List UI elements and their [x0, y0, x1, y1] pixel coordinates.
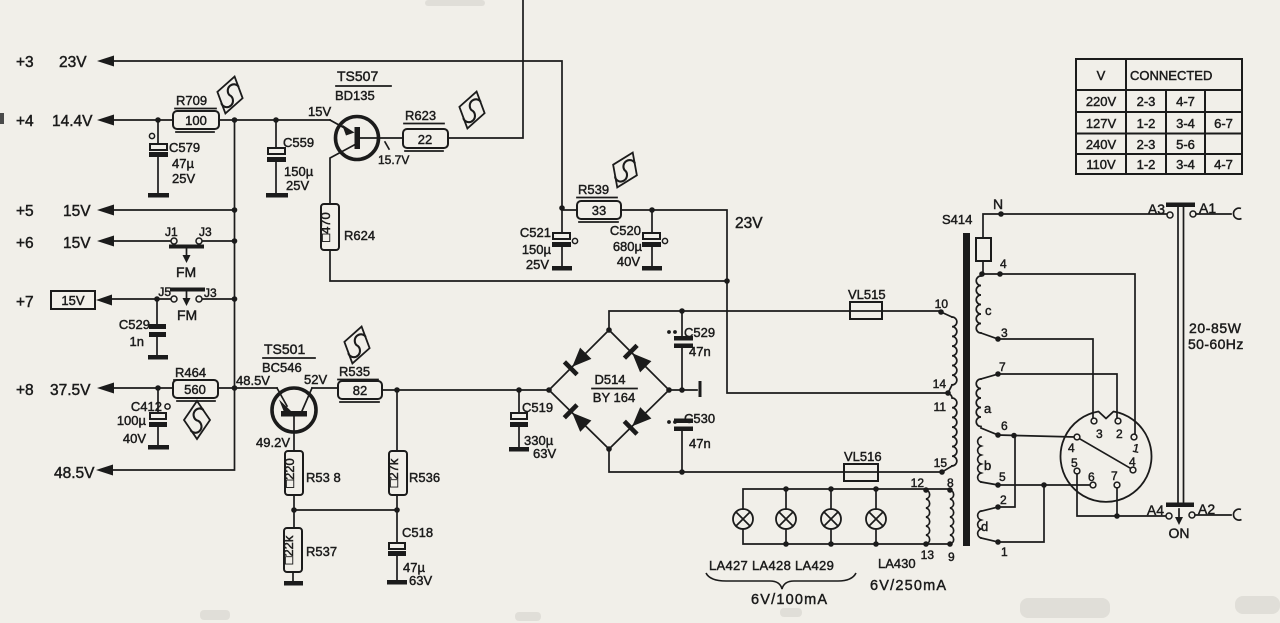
- node pin 15: [934, 456, 952, 475]
- resistor R537: [281, 528, 337, 586]
- svg-text:N: N: [993, 196, 1003, 212]
- transistor TS501 BC546: [236, 341, 327, 451]
- svg-text:40V: 40V: [617, 254, 640, 269]
- node junction C520: [649, 207, 655, 213]
- svg-text:6V/250mA: 6V/250mA: [870, 578, 947, 594]
- node pin 10: [935, 297, 952, 317]
- node junction C559: [273, 117, 279, 123]
- terminal A3/A1: [1148, 200, 1216, 218]
- svg-text:52V: 52V: [304, 372, 327, 387]
- svg-text:A3: A3: [1148, 201, 1165, 217]
- svg-text:7: 7: [999, 360, 1006, 374]
- svg-text:C520: C520: [610, 223, 641, 238]
- resistor R623: [403, 108, 448, 151]
- svg-text:b: b: [984, 458, 991, 473]
- svg-text:15: 15: [934, 456, 948, 470]
- node 48.5V rail: [54, 465, 113, 483]
- plug hook bottom: [1233, 509, 1241, 520]
- wire R538/R536 bottoms: [294, 495, 397, 543]
- svg-text:R53 8: R53 8: [306, 470, 341, 485]
- svg-text:3: 3: [1096, 427, 1103, 441]
- svg-text:TS507: TS507: [337, 68, 378, 84]
- svg-text:J1: J1: [165, 225, 178, 239]
- node +7 rail 15V boxed: [16, 291, 112, 311]
- safety diamond at R539: [605, 147, 644, 192]
- node pin 2: [995, 493, 1007, 510]
- wire lamp bottom rail: [743, 529, 950, 544]
- svg-text:25V: 25V: [526, 257, 549, 272]
- svg-text:63V: 63V: [409, 573, 432, 588]
- wire pin 2 up to pin 6 wire: [998, 436, 1015, 507]
- capacitor C529 47n: [667, 311, 715, 390]
- svg-text:47n: 47n: [689, 344, 711, 359]
- node pin 6: [981, 419, 1008, 438]
- svg-text:J3: J3: [204, 286, 217, 300]
- svg-text:□27k: □27k: [386, 458, 401, 487]
- lamp LA427: [733, 509, 753, 529]
- svg-text:680µ: 680µ: [613, 239, 643, 254]
- wire +4 rail: [112, 119, 330, 121]
- svg-text:240V: 240V: [1086, 137, 1117, 152]
- lamp LA429: [821, 486, 841, 547]
- node chassis tap bar: [699, 381, 702, 397]
- svg-text:+8: +8: [16, 382, 34, 399]
- svg-text:R623: R623: [405, 108, 436, 123]
- node +5 rail 15V: [16, 203, 114, 220]
- svg-text:150µ: 150µ: [522, 242, 552, 257]
- bridge rectifier D514 BY164: [546, 327, 672, 452]
- svg-text:ON: ON: [1169, 525, 1190, 541]
- capacitor C518: [387, 525, 433, 588]
- svg-text:1n: 1n: [130, 334, 144, 349]
- svg-text:C519: C519: [522, 400, 553, 415]
- svg-text:8: 8: [947, 476, 954, 490]
- svg-text:C579: C579: [169, 140, 200, 155]
- svg-text:5: 5: [1071, 456, 1078, 470]
- wire A1 to plug: [1196, 213, 1231, 215]
- diode D514 lower-left: [564, 405, 591, 432]
- node junction main vertical at +4: [232, 117, 238, 123]
- svg-text:3-4: 3-4: [1176, 116, 1195, 131]
- node junction C579: [155, 117, 161, 123]
- svg-text:c: c: [985, 303, 992, 318]
- svg-text:20-85W: 20-85W: [1189, 320, 1242, 336]
- svg-text:C412: C412: [131, 399, 162, 414]
- svg-text:15V: 15V: [308, 104, 331, 119]
- wire pin 1 up to pin 5 wire: [998, 485, 1044, 542]
- svg-text:+5: +5: [16, 203, 34, 220]
- transformer S414 core: [942, 212, 972, 546]
- svg-text:CONNECTED: CONNECTED: [1130, 68, 1212, 83]
- wire pin 6 to selector pin 4 left: [998, 435, 1074, 437]
- wire R623 to top feed: [448, 0, 523, 138]
- diode D514 upper-right: [624, 345, 651, 372]
- wire lamp top rail: [743, 489, 950, 509]
- svg-text:25V: 25V: [286, 178, 309, 193]
- svg-text:33: 33: [592, 203, 606, 218]
- svg-text:3-4: 3-4: [1176, 157, 1195, 172]
- svg-text:9: 9: [948, 550, 955, 564]
- svg-text:100µ: 100µ: [117, 413, 147, 428]
- node +4 rail 14.4V: [16, 113, 114, 130]
- svg-text:□22k: □22k: [281, 535, 296, 564]
- svg-text:LA430: LA430: [878, 556, 916, 571]
- ON arrow: [1169, 509, 1190, 541]
- table voltage connections: [1076, 59, 1242, 174]
- svg-text:J3: J3: [199, 225, 212, 239]
- jumper J1 J3 FM: [165, 225, 212, 280]
- svg-text:127V: 127V: [1086, 116, 1117, 131]
- svg-text:2: 2: [1000, 493, 1007, 507]
- svg-text:15V: 15V: [61, 293, 84, 308]
- fuse VL515: [848, 287, 886, 319]
- svg-text:48.5V: 48.5V: [54, 465, 95, 482]
- node +6 rail 15V: [16, 235, 114, 252]
- svg-text:150µ: 150µ: [284, 164, 314, 179]
- mains cord double line: [1178, 207, 1184, 503]
- svg-text:10: 10: [935, 297, 949, 311]
- winding c: [976, 276, 992, 333]
- svg-text:VL516: VL516: [844, 449, 882, 464]
- label 20-85W 50-60Hz: [1188, 320, 1244, 352]
- svg-text:A4: A4: [1147, 502, 1164, 518]
- resistor R539: [577, 182, 621, 222]
- node pins 14/11 tap: [933, 377, 952, 414]
- svg-text:C521: C521: [520, 225, 551, 240]
- node +8 rail 37.5V: [16, 382, 114, 399]
- node junction 23V / R624: [724, 278, 730, 284]
- jumper J5 J3 FM: [158, 285, 217, 323]
- winding 12-13: [911, 476, 935, 562]
- svg-text:5: 5: [999, 470, 1006, 484]
- fuse VL516: [844, 449, 882, 481]
- svg-text:47µ: 47µ: [172, 156, 194, 171]
- wire +3 rail to R539: [112, 61, 562, 208]
- wire pin 5 to selector pin 6: [998, 484, 1090, 486]
- svg-text:22: 22: [418, 132, 432, 147]
- resistor R624: [318, 204, 375, 250]
- svg-text:82: 82: [353, 383, 367, 398]
- svg-text:6: 6: [1088, 470, 1095, 484]
- svg-text:40V: 40V: [123, 431, 146, 446]
- svg-text:7: 7: [1111, 469, 1118, 483]
- svg-text:220V: 220V: [1086, 94, 1117, 109]
- svg-text:4: 4: [1000, 257, 1007, 271]
- svg-text:47n: 47n: [689, 436, 711, 451]
- svg-text:+6: +6: [16, 235, 34, 252]
- wire +6 rail: [112, 240, 235, 242]
- svg-text:14: 14: [933, 377, 947, 391]
- terminal A4/A2: [1147, 501, 1215, 519]
- lamp LA428: [776, 486, 796, 547]
- node pin 4: [997, 257, 1007, 277]
- wire 52V to R535: [312, 387, 338, 389]
- svg-text:3: 3: [1001, 326, 1008, 340]
- svg-text:2: 2: [1116, 427, 1123, 441]
- brace under lamps: [706, 573, 856, 589]
- svg-text:C529: C529: [684, 325, 715, 340]
- svg-text:R535: R535: [339, 364, 370, 379]
- svg-text:C559: C559: [283, 135, 314, 150]
- svg-text:R624: R624: [344, 228, 375, 243]
- svg-text:FM: FM: [176, 264, 196, 280]
- wire +5 rail: [112, 209, 235, 211]
- svg-text:50-60Hz: 50-60Hz: [1188, 336, 1244, 352]
- node +3 rail 23V: [16, 54, 114, 71]
- svg-text:4: 4: [1129, 455, 1136, 469]
- diode D514 lower-right: [624, 407, 651, 434]
- svg-text:S414: S414: [942, 212, 972, 227]
- svg-text:1-2: 1-2: [1137, 116, 1156, 131]
- svg-text:6V/100mA: 6V/100mA: [751, 592, 828, 608]
- node N terminal: [993, 196, 1004, 217]
- svg-text:R709: R709: [176, 93, 207, 108]
- capacitor C529 1n: [119, 299, 168, 360]
- svg-text:15.7V: 15.7V: [378, 153, 409, 167]
- capacitor C519: [509, 390, 556, 461]
- scan artifact left edge: [0, 113, 4, 124]
- svg-text:4-7: 4-7: [1176, 94, 1195, 109]
- capacitor C530 47n: [667, 411, 715, 472]
- wire bridge bottom to VL516 and pin 15: [609, 449, 942, 472]
- plug hook top: [1233, 208, 1241, 219]
- svg-text:R539: R539: [578, 182, 609, 197]
- svg-text:11: 11: [934, 400, 947, 414]
- wire bridge top to VL515 and pin 10: [609, 311, 941, 330]
- svg-text:C518: C518: [402, 525, 433, 540]
- svg-text:V: V: [1097, 68, 1106, 83]
- svg-text:C530: C530: [684, 411, 715, 426]
- diode D514 upper-left: [564, 348, 591, 375]
- svg-text:TS501: TS501: [264, 341, 305, 357]
- wire bridge right to tap bar: [669, 389, 697, 391]
- svg-text:110V: 110V: [1086, 157, 1116, 172]
- svg-text:a: a: [984, 401, 992, 416]
- svg-text:BY 164: BY 164: [593, 390, 635, 405]
- svg-text:D514: D514: [594, 372, 625, 387]
- winding a: [976, 379, 992, 427]
- wire pin 4 to selector pin 1: [982, 274, 1135, 434]
- node pin 7: [981, 360, 1006, 379]
- svg-text:15V: 15V: [63, 235, 91, 252]
- winding 10-14: [952, 317, 957, 385]
- svg-text:4-7: 4-7: [1214, 157, 1233, 172]
- svg-text:R464: R464: [175, 365, 206, 380]
- capacitor C521: [520, 210, 578, 272]
- safety diamond at R464: [184, 401, 210, 439]
- capacitor C579: [148, 120, 200, 198]
- safety diamond at R709: [213, 73, 247, 116]
- svg-text:2-3: 2-3: [1137, 94, 1156, 109]
- svg-text:4: 4: [1068, 441, 1075, 455]
- svg-text:J5: J5: [158, 285, 171, 299]
- svg-text:14.4V: 14.4V: [52, 113, 93, 130]
- winding d: [978, 507, 998, 538]
- voltage selector S414 switch: [1061, 412, 1152, 502]
- svg-text:48.5V: 48.5V: [236, 373, 270, 388]
- wire main left vertical bus: [112, 120, 235, 470]
- wire R535 to bridge left: [382, 389, 549, 391]
- node pin 5: [981, 470, 1006, 488]
- svg-text:R536: R536: [409, 470, 440, 485]
- svg-text:63V: 63V: [533, 446, 556, 461]
- wire fuse to winding c top: [982, 261, 984, 274]
- safety diamond at R623: [455, 88, 489, 131]
- svg-text:23V: 23V: [735, 215, 763, 232]
- svg-text:□220: □220: [282, 458, 297, 488]
- winding b: [978, 437, 992, 482]
- svg-text:C529: C529: [119, 317, 150, 332]
- capacitor C559: [266, 120, 314, 198]
- svg-text:560: 560: [184, 382, 206, 397]
- svg-text:BD135: BD135: [335, 88, 375, 103]
- svg-text:VL515: VL515: [848, 287, 886, 302]
- wire A2 to plug: [1195, 514, 1231, 516]
- svg-text:6: 6: [1001, 419, 1008, 433]
- svg-text:25V: 25V: [172, 171, 195, 186]
- svg-text:2-3: 2-3: [1137, 137, 1156, 152]
- lamp LA430: [866, 486, 886, 547]
- svg-text:12: 12: [911, 476, 925, 490]
- svg-text:6-7: 6-7: [1214, 116, 1233, 131]
- svg-text:37.5V: 37.5V: [50, 382, 91, 399]
- svg-text:+7: +7: [16, 294, 34, 311]
- capacitor C412: [117, 388, 170, 450]
- safety diamond at R535: [340, 323, 374, 366]
- resistor R464: [173, 365, 218, 401]
- node junction C519 top: [516, 387, 522, 393]
- wire selector pins 5 and 7 to A4: [1077, 474, 1166, 516]
- svg-text:d: d: [981, 519, 988, 534]
- wire R624 bottom to 23V node: [330, 250, 727, 281]
- svg-text:+4: +4: [16, 113, 34, 130]
- svg-text:+3: +3: [16, 54, 34, 71]
- resistor R536: [386, 390, 440, 495]
- resistor R538: [282, 451, 341, 495]
- node junction R536 top: [394, 387, 400, 393]
- svg-text:1: 1: [1001, 545, 1008, 559]
- svg-text:13: 13: [921, 548, 935, 562]
- wire pin 3 to selector pin 3: [998, 339, 1093, 418]
- svg-text:R537: R537: [306, 544, 337, 559]
- winding 8-9: [947, 476, 955, 564]
- fuse on N lead: [976, 238, 991, 261]
- svg-text:FM: FM: [177, 307, 197, 323]
- wire +7 rail: [111, 298, 235, 300]
- svg-text:□470: □470: [318, 212, 333, 242]
- wire R539 right to 23V vertical: [621, 210, 948, 393]
- node pin 3: [981, 326, 1008, 342]
- wire +8 rail: [112, 387, 277, 389]
- svg-text:49.2V: 49.2V: [256, 435, 290, 450]
- resistor R535: [338, 364, 382, 402]
- svg-text:LA427 LA428 LA429: LA427 LA428 LA429: [709, 558, 834, 573]
- wire R539 left stub: [562, 209, 577, 211]
- node junction R539 left: [559, 205, 565, 211]
- svg-text:5-6: 5-6: [1176, 137, 1195, 152]
- svg-text:23V: 23V: [59, 54, 87, 71]
- winding 11-15: [948, 393, 957, 466]
- svg-text:100: 100: [185, 113, 207, 128]
- resistor R709: [173, 93, 219, 132]
- transistor TS507 BD135: [308, 68, 409, 204]
- wire N rail to A3: [983, 214, 1167, 238]
- node pin 1: [981, 538, 1008, 559]
- capacitor C520: [610, 210, 668, 271]
- svg-text:15V: 15V: [63, 203, 91, 220]
- svg-text:1-2: 1-2: [1137, 157, 1156, 172]
- wire pin 7 to selector pin 2: [998, 374, 1117, 418]
